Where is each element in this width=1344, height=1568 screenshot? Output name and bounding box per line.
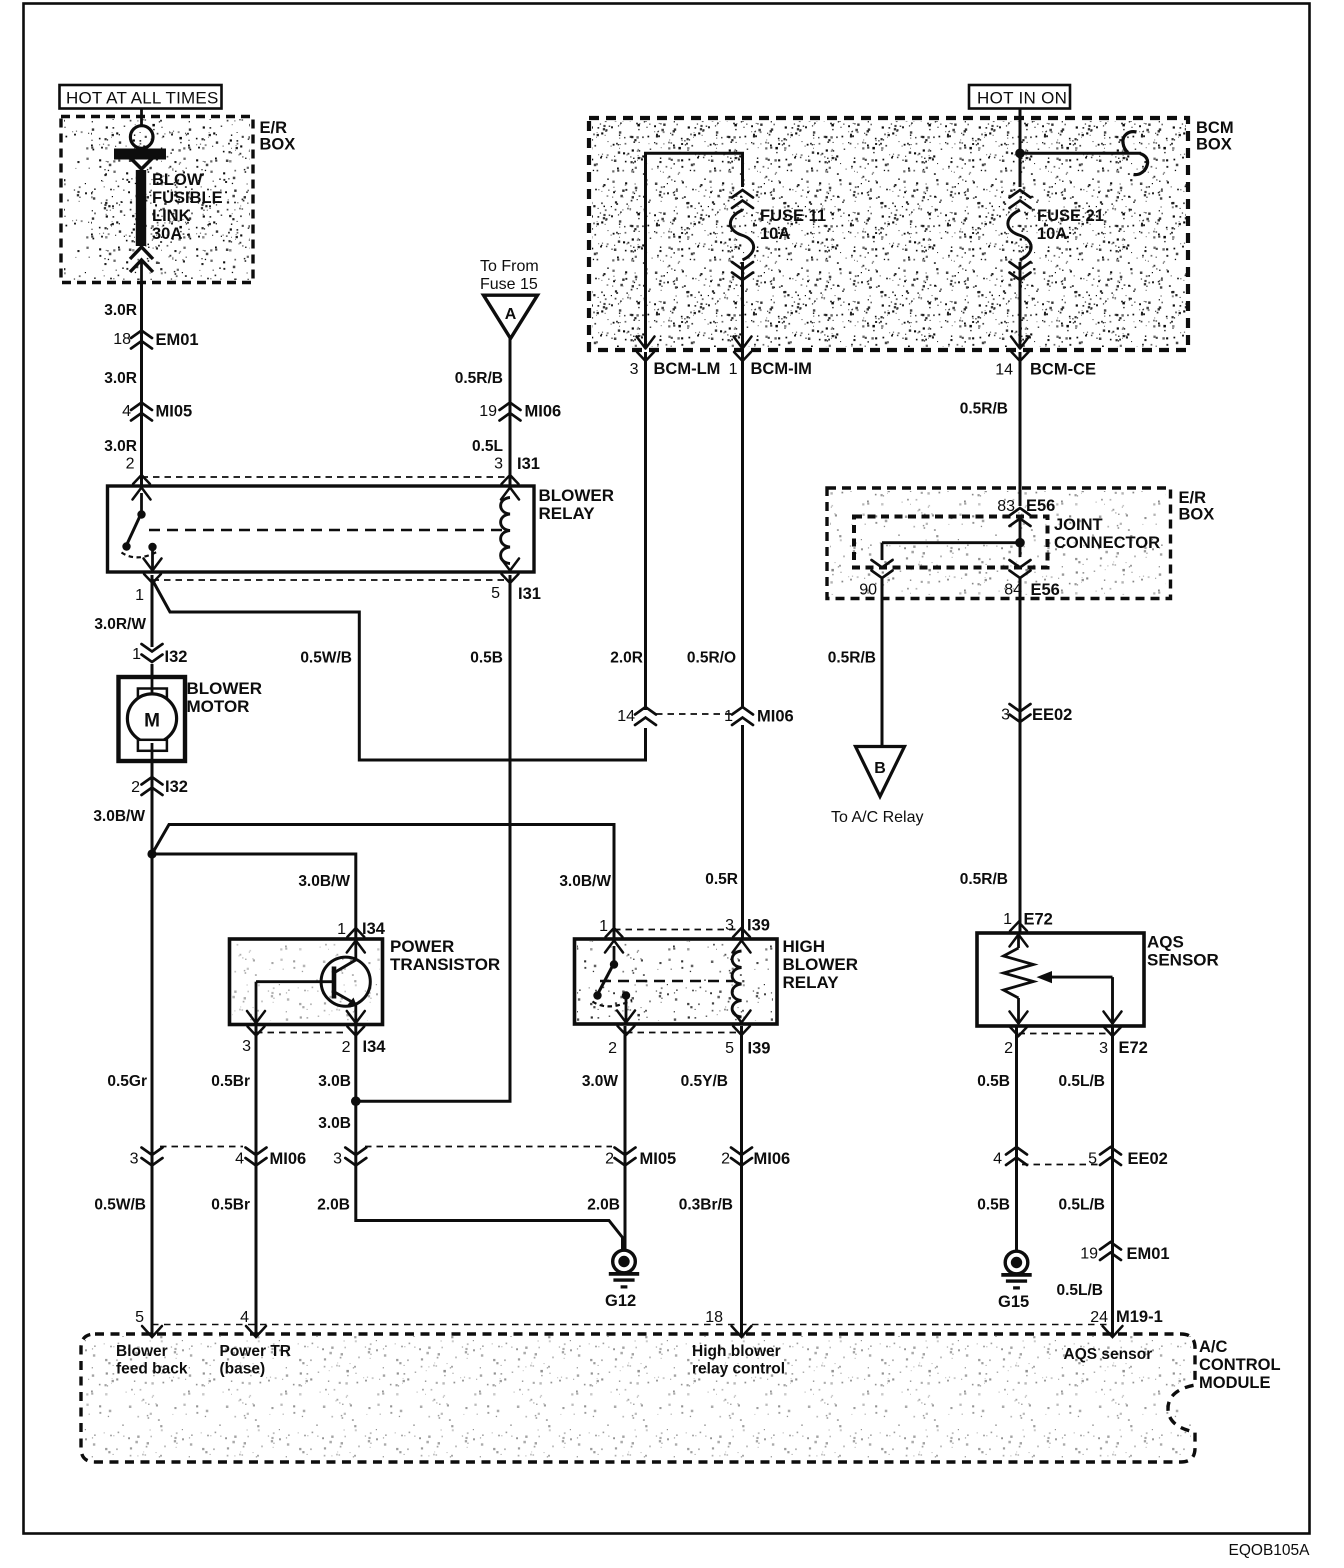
connector MI05 pin 4 (122, 403, 192, 421)
svg-text:FUSIBLE: FUSIBLE (152, 189, 223, 207)
svg-text:HOT IN ON: HOT IN ON (977, 89, 1067, 108)
blower relay pin 5 exit (501, 559, 519, 584)
svg-text:5: 5 (491, 585, 500, 602)
connector EM01 pin 18 (113, 331, 198, 350)
junction node 3.0B / 0.5B (351, 1096, 361, 1106)
svg-text:Power TR: Power TR (220, 1343, 291, 1360)
label pin 2 I34 (342, 1038, 387, 1056)
module entry pin 18 (705, 1309, 751, 1337)
connector E56 pin 90 exit (859, 560, 892, 599)
connector pin 3 (3.0B) (333, 1148, 366, 1168)
module connector thin dashes (152, 1324, 1113, 1326)
svg-text:A/C: A/C (1199, 1338, 1228, 1356)
svg-text:I34: I34 (363, 1038, 387, 1056)
label JOINT CONNECTOR (1054, 516, 1160, 552)
svg-text:SENSOR: SENSOR (1147, 951, 1219, 970)
high blower relay internal dashed line (600, 980, 733, 983)
svg-text:3: 3 (130, 1151, 139, 1168)
svg-text:2: 2 (608, 1040, 617, 1057)
svg-text:G12: G12 (605, 1292, 636, 1310)
label HIGH BLOWER RELAY (783, 937, 859, 992)
module entry pin 4 (240, 1309, 266, 1337)
svg-text:EM01: EM01 (1127, 1245, 1170, 1263)
svg-text:2: 2 (721, 1151, 730, 1168)
shaded scan texture BCM box (592, 121, 1186, 347)
high blower relay switch contacts (593, 946, 633, 1022)
svg-text:BLOW: BLOW (152, 171, 203, 189)
svg-text:I32: I32 (165, 778, 188, 796)
label pin 1 I34 top (337, 920, 386, 938)
blower relay pin 3 entry (501, 475, 519, 500)
svg-text:BLOWER: BLOWER (783, 955, 859, 974)
svg-text:BLOWER: BLOWER (187, 679, 263, 698)
power transistor pin 1 entry (347, 928, 365, 953)
svg-text:0.5R/B: 0.5R/B (828, 650, 876, 667)
svg-text:1: 1 (724, 708, 733, 725)
svg-text:0.3Br/B: 0.3Br/B (679, 1197, 733, 1214)
wire 3.0W high relay pin2 to ground G12 (624, 1026, 627, 1250)
svg-text:M19-1: M19-1 (1116, 1308, 1163, 1326)
label 0.5Br (2) (211, 1197, 250, 1214)
svg-text:0.5B: 0.5B (977, 1073, 1010, 1090)
E/R box top-left (dashed) (61, 117, 253, 283)
label 0.3Br/B (679, 1197, 733, 1214)
svg-text:(base): (base) (220, 1361, 266, 1378)
label 0.5W/B (branch) (300, 650, 352, 667)
svg-text:A: A (505, 306, 517, 323)
off-page triangle B (To A/C Relay) (856, 747, 905, 797)
svg-text:E72: E72 (1119, 1039, 1148, 1057)
svg-text:83: 83 (997, 498, 1015, 515)
svg-text:1: 1 (132, 646, 141, 663)
label pin 2 E72 (1004, 1040, 1013, 1057)
svg-text:FUSE 21: FUSE 21 (1037, 207, 1104, 225)
wire 0.5B relay pin5 to 3.0B junction (356, 575, 510, 1101)
label Blower feed back (116, 1343, 188, 1378)
label pin 3 E72 (1099, 1039, 1148, 1057)
svg-text:MI06: MI06 (757, 708, 794, 726)
svg-text:0.5B: 0.5B (977, 1197, 1010, 1214)
label 0.5R/B (to A/C relay) (828, 650, 876, 667)
label AQS SENSOR (1147, 933, 1219, 970)
svg-text:3: 3 (1099, 1040, 1108, 1057)
connector EE02 pin 3 (1001, 704, 1072, 724)
svg-text:1: 1 (729, 361, 738, 378)
power transistor pin 3 exit (247, 1011, 265, 1036)
high blower relay pin 3 entry (733, 928, 751, 953)
svg-text:3.0B/W: 3.0B/W (93, 808, 145, 825)
svg-text:BLOWER: BLOWER (539, 486, 615, 505)
svg-text:BOX: BOX (1179, 506, 1215, 524)
label BCM BOX (1196, 119, 1234, 154)
fusible link BLOW FUSIBLE LINK 30A (114, 109, 166, 283)
svg-text:19: 19 (479, 403, 497, 420)
wire 3.0R/W relay pin1 to blower motor (151, 575, 154, 677)
svg-text:0.5R: 0.5R (705, 871, 738, 888)
junction node blower feedback (147, 849, 156, 858)
svg-text:0.5Br: 0.5Br (211, 1197, 250, 1214)
svg-text:FUSE 11: FUSE 11 (760, 207, 826, 225)
svg-text:18: 18 (113, 331, 131, 348)
wire 0.5Y/B high relay pin5 to module pin 18 (740, 1026, 743, 1336)
svg-text:2: 2 (1004, 1040, 1013, 1057)
svg-text:To From: To From (480, 258, 539, 275)
connector dashes E72 (1019, 1033, 1113, 1035)
label E/R BOX right (1179, 489, 1215, 524)
label 0.5L (472, 438, 503, 455)
connector I32 pin 2 (131, 777, 188, 796)
label 3.0B/W (transistor) (298, 873, 350, 890)
wire 0.5R/B triangle A to blower relay pin 3 (509, 339, 512, 487)
svg-text:BCM-CE: BCM-CE (1030, 361, 1096, 379)
label box HOT IN ON (969, 85, 1070, 109)
svg-text:3.0B/W: 3.0B/W (559, 873, 611, 890)
connector dashes I31 top (142, 476, 511, 478)
off-page triangle A (Fuse 15) (484, 295, 538, 338)
svg-text:14: 14 (617, 708, 635, 725)
svg-text:B: B (874, 760, 886, 777)
label 24 M19-1 (1090, 1308, 1163, 1326)
label 1 BCM-IM (729, 360, 812, 378)
wire BCM-LM inside BCM box (646, 153, 743, 348)
wire inside joint connector (882, 516, 1020, 560)
svg-text:5: 5 (725, 1040, 734, 1057)
BCM box (dashed) (589, 118, 1188, 350)
svg-text:1: 1 (1003, 911, 1012, 928)
label 0.5R/B (AQS) (960, 871, 1008, 888)
label pin 3 I34 (242, 1038, 251, 1055)
ground G15 (998, 1251, 1032, 1311)
AQS pin 2 exit (1010, 1012, 1028, 1037)
connector MI06 pin 4 (235, 1148, 306, 1169)
label 0.5Gr (107, 1073, 147, 1090)
label 0.5L/B (3) (1056, 1282, 1103, 1299)
label 14 BCM-CE (995, 361, 1096, 379)
wire 0.5L/B AQS pin3 to module pin 24 (1111, 1027, 1114, 1336)
svg-text:BCM-IM: BCM-IM (751, 360, 812, 378)
svg-text:MI05: MI05 (640, 1150, 677, 1168)
connector E56 pin 84 exit (1004, 560, 1060, 599)
connector dashes I31 bottom (153, 579, 511, 581)
wire 0.5R/B BCM-CE to joint connector (1019, 352, 1022, 506)
label 3.0R (1) (104, 302, 137, 319)
svg-text:4: 4 (235, 1151, 244, 1168)
svg-text:2: 2 (342, 1039, 351, 1056)
svg-text:3.0B/W: 3.0B/W (298, 873, 350, 890)
svg-text:4: 4 (993, 1151, 1002, 1168)
wire 3.0B/W junction to high blower relay pin 1 (152, 825, 614, 939)
label BLOW FUSIBLE LINK 30A (152, 171, 223, 243)
label 0.5R/O (687, 650, 736, 667)
AQS pin 1 entry (1010, 922, 1028, 947)
svg-text:3: 3 (494, 456, 503, 473)
svg-text:19: 19 (1080, 1246, 1098, 1263)
svg-text:3.0W: 3.0W (582, 1073, 619, 1090)
high blower relay pin 2 exit (617, 1011, 635, 1036)
label pin 2 blower relay (126, 456, 135, 473)
blower relay box (108, 486, 535, 572)
svg-text:0.5B: 0.5B (470, 650, 503, 667)
svg-text:MODULE: MODULE (1199, 1374, 1271, 1392)
label E/R BOX top-left (260, 119, 296, 154)
wire 0.5R/B to triangle B (881, 578, 884, 746)
blower motor M (119, 677, 186, 761)
label 2.0B (right) (587, 1197, 620, 1214)
wire HOT IN ON into BCM (1019, 109, 1022, 187)
ground G12 (605, 1250, 639, 1310)
shaded scan texture E/R box top-left (64, 119, 277, 293)
high blower relay coil (732, 951, 741, 1017)
connector I32 pin 1 (132, 644, 187, 666)
svg-text:0.5Gr: 0.5Gr (107, 1073, 147, 1090)
A/C control module box (dashed) (81, 1334, 1195, 1462)
svg-text:I31: I31 (517, 455, 540, 473)
wire BCM feed to hook (1020, 152, 1141, 155)
fuse FUSE 11 10A (730, 190, 753, 348)
svg-text:1: 1 (135, 587, 144, 604)
label pin 5 I39 bottom (725, 1040, 770, 1058)
svg-text:RELAY: RELAY (783, 973, 840, 992)
wire 0.5R/O BCM-IM down (741, 352, 744, 707)
svg-text:High blower: High blower (692, 1343, 781, 1360)
svg-text:POWER: POWER (390, 937, 454, 956)
blower relay coil (501, 498, 510, 564)
junction node BCM feed (1015, 149, 1025, 159)
svg-text:4: 4 (240, 1309, 249, 1326)
svg-text:2.0R: 2.0R (610, 650, 643, 667)
svg-text:1: 1 (337, 921, 346, 938)
blower relay internal dashed line (149, 529, 502, 532)
svg-text:Blower: Blower (116, 1343, 168, 1360)
svg-text:3.0B: 3.0B (318, 1073, 351, 1090)
svg-text:I34: I34 (362, 920, 386, 938)
label 3.0W (582, 1073, 619, 1090)
svg-text:MI06: MI06 (270, 1150, 307, 1168)
connector MI06 pins 14/1 (row) (617, 707, 793, 726)
svg-text:M: M (144, 711, 160, 732)
svg-text:3: 3 (242, 1038, 251, 1055)
svg-text:RELAY: RELAY (539, 504, 596, 523)
wire 0.5Gr junction down to module pin 5 (151, 854, 154, 1336)
label 0.5B (pin5) (470, 650, 503, 667)
svg-text:I39: I39 (748, 1040, 771, 1058)
svg-text:AQS sensor: AQS sensor (1064, 1346, 1153, 1363)
label pin 3 I39 top (725, 917, 770, 935)
blower relay pin 1 exit (144, 559, 162, 584)
wire 0.5R to high blower relay pin 3 (741, 725, 744, 939)
label 0.5L/B (2) (1058, 1197, 1105, 1214)
label To From Fuse 15 (480, 258, 539, 293)
svg-text:0.5W/B: 0.5W/B (94, 1197, 146, 1214)
svg-text:0.5Br: 0.5Br (211, 1073, 250, 1090)
label 3.0R/W (94, 616, 146, 633)
svg-text:EM01: EM01 (156, 331, 199, 349)
svg-text:E/R: E/R (1179, 489, 1207, 507)
svg-text:E56: E56 (1026, 497, 1055, 515)
svg-text:EE02: EE02 (1032, 706, 1072, 724)
connector MI06 pin 19 (479, 403, 561, 421)
svg-text:2.0B: 2.0B (317, 1197, 350, 1214)
joint connector box (dashed) (854, 517, 1048, 568)
label 0.5Y/B (681, 1073, 728, 1090)
svg-text:I39: I39 (747, 917, 770, 935)
wire 0.5B AQS pin2 to ground G15 (1015, 1027, 1018, 1251)
blower relay pin 2 entry (133, 475, 151, 500)
transistor Q1 symbol (256, 939, 370, 1024)
label 0.5R (705, 871, 738, 888)
hook (wire continues) in BCM box (1123, 132, 1148, 175)
label FUSE 11 10A (760, 207, 826, 243)
svg-text:0.5R/O: 0.5R/O (687, 650, 736, 667)
svg-text:10A: 10A (1037, 225, 1067, 243)
svg-text:3: 3 (333, 1151, 342, 1168)
svg-text:0.5L: 0.5L (472, 438, 503, 455)
wire 3.0B/W motor to junction (151, 761, 154, 854)
label 3.0R (3) (104, 438, 137, 455)
svg-text:AQS: AQS (1147, 933, 1184, 952)
label pin 2 high blower relay (608, 1040, 617, 1057)
BCM exit BCM-IM (734, 337, 752, 362)
connector EM01 pin 19 (1080, 1242, 1169, 1263)
svg-text:HOT AT ALL TIMES: HOT AT ALL TIMES (66, 89, 218, 108)
svg-text:EQOB105A: EQOB105A (1229, 1542, 1311, 1559)
svg-text:MOTOR: MOTOR (187, 697, 250, 716)
svg-text:0.5R/B: 0.5R/B (455, 370, 503, 387)
connector pin 3 (blower feedback) (130, 1148, 163, 1168)
svg-text:HIGH: HIGH (783, 937, 826, 956)
svg-text:3.0R/W: 3.0R/W (94, 616, 146, 633)
svg-text:2: 2 (131, 779, 140, 796)
connector dashes I39 bottom (626, 1032, 742, 1034)
label High blower relay control (692, 1343, 785, 1378)
svg-text:2: 2 (126, 456, 135, 473)
svg-text:E72: E72 (1024, 911, 1053, 929)
svg-text:E/R: E/R (260, 119, 288, 137)
power transistor box (230, 939, 383, 1025)
label pin 5 I31 bottom (491, 585, 541, 603)
svg-text:5: 5 (1088, 1151, 1097, 1168)
label 0.5Br (1) (211, 1073, 250, 1090)
connector MI05 pin 2 (605, 1148, 676, 1169)
svg-text:0.5L/B: 0.5L/B (1056, 1282, 1103, 1299)
label 3.0B/W (motor) (93, 808, 145, 825)
AQS pin 3 exit (1104, 1012, 1122, 1037)
label To A/C Relay (831, 809, 923, 826)
svg-text:4: 4 (122, 403, 131, 420)
wire 3.0R fusible link to blower relay pin 2 (140, 283, 143, 486)
svg-text:BOX: BOX (260, 136, 296, 154)
svg-text:3.0R: 3.0R (104, 370, 137, 387)
label 0.5L/B (1) (1058, 1073, 1105, 1090)
svg-text:LINK: LINK (152, 207, 191, 225)
BCM exit BCM-LM (637, 337, 655, 362)
wire 3.0B transistor emitter to ground G12 (356, 1026, 623, 1250)
connector row dashes left (160, 1146, 243, 1148)
label BLOWER RELAY (539, 486, 615, 523)
svg-text:EE02: EE02 (1128, 1150, 1168, 1168)
label AQS sensor (1064, 1346, 1153, 1363)
label pin 1 E72 (1003, 911, 1053, 929)
svg-text:3: 3 (630, 361, 639, 378)
label POWER TRANSISTOR (390, 937, 500, 974)
shaded scan texture power transistor box (232, 942, 380, 1021)
high blower relay box (575, 939, 778, 1024)
svg-text:MI06: MI06 (525, 403, 562, 421)
svg-text:0.5R/B: 0.5R/B (960, 401, 1008, 418)
fuse FUSE 21 10A (1008, 190, 1031, 348)
svg-text:MI05: MI05 (156, 403, 193, 421)
label EQOB105A (1229, 1542, 1311, 1559)
svg-text:14: 14 (995, 362, 1013, 379)
label Power TR (base) (220, 1343, 291, 1378)
junction node joint connector (1015, 538, 1025, 548)
connector MI06 pin 2 (721, 1148, 790, 1169)
svg-text:3.0R: 3.0R (104, 438, 137, 455)
svg-text:30A: 30A (152, 225, 182, 243)
connector E56 pin 83 (997, 497, 1055, 526)
svg-text:relay control: relay control (692, 1361, 785, 1378)
label 3.0B (2) (318, 1115, 351, 1132)
label 3.0B/W (high relay) (559, 873, 611, 890)
AQS wiper arrow (1037, 971, 1113, 1024)
svg-text:90: 90 (859, 582, 877, 599)
svg-text:0.5Y/B: 0.5Y/B (681, 1073, 728, 1090)
label 3.0B (1) (318, 1073, 351, 1090)
svg-text:To A/C Relay: To A/C Relay (831, 809, 923, 826)
svg-text:0.5W/B: 0.5W/B (300, 650, 352, 667)
svg-text:0.5L/B: 0.5L/B (1058, 1197, 1105, 1214)
shaded scan texture A/C control module (83, 1336, 1191, 1458)
svg-text:CONNECTOR: CONNECTOR (1054, 534, 1160, 552)
label 2.0B (left) (317, 1197, 350, 1214)
svg-text:5: 5 (135, 1309, 144, 1326)
svg-text:3: 3 (725, 917, 734, 934)
label 0.5W/B (bottom) (94, 1197, 146, 1214)
connector row dashes middle (365, 1146, 612, 1148)
label 0.5B (AQS 1) (977, 1073, 1010, 1090)
high blower relay pin 5 exit (733, 1011, 751, 1036)
wire 0.5Br transistor base to module pin 4 (255, 1026, 258, 1336)
svg-text:TRANSISTOR: TRANSISTOR (390, 955, 500, 974)
high blower relay pin 1 entry (605, 928, 623, 953)
connector dashes AQS row (1022, 1164, 1102, 1166)
connector dashes I34 (256, 1032, 347, 1034)
label 3 BCM-LM (630, 360, 721, 378)
svg-text:BCM: BCM (1196, 119, 1234, 137)
label 2.0R (610, 650, 643, 667)
svg-text:E56: E56 (1031, 581, 1060, 599)
label pin 3 I31 top (494, 455, 540, 473)
svg-text:3.0B: 3.0B (318, 1115, 351, 1132)
svg-text:10A: 10A (760, 225, 790, 243)
E/R box right (dashed) (827, 488, 1171, 599)
label pin 1 high blower relay (599, 918, 608, 935)
connector EE02 pin 5 (1088, 1147, 1168, 1168)
svg-text:3.0R: 3.0R (104, 302, 137, 319)
BCM exit BCM-CE (1011, 337, 1029, 362)
connector pin 4 (0.5B) (993, 1147, 1027, 1168)
svg-text:BOX: BOX (1196, 136, 1232, 154)
svg-text:2.0B: 2.0B (587, 1197, 620, 1214)
label BLOWER MOTOR (187, 679, 263, 716)
svg-text:I31: I31 (518, 585, 541, 603)
svg-text:BCM-LM: BCM-LM (654, 360, 721, 378)
module entry pin 5 (135, 1309, 162, 1337)
svg-text:I32: I32 (165, 648, 188, 666)
svg-text:0.5L/B: 0.5L/B (1058, 1073, 1105, 1090)
label 0.5R/B (fuse15) (455, 370, 503, 387)
power transistor pin 2 exit (347, 1011, 365, 1036)
